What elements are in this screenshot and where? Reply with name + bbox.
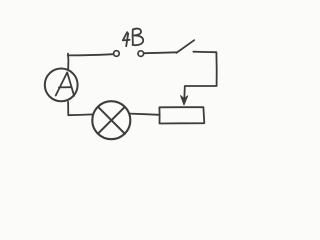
- label 4B (source voltage): [123, 29, 143, 47]
- terminal (battery clamp, left): [114, 51, 120, 57]
- lamp HL (circle with cross): [92, 101, 130, 139]
- wire (ammeter top to left battery terminal): [68, 54, 113, 69]
- wire (ammeter bottom to lamp): [68, 102, 93, 115]
- terminal (battery clamp, right): [138, 51, 144, 57]
- rheostat R (body): [159, 107, 204, 123]
- wire (switch to rheostat slider, with two bends): [185, 52, 217, 86]
- wire (lamp to rheostat): [129, 114, 159, 115]
- ammeter letter A: [56, 72, 74, 95]
- switch S (open lever): [176, 40, 194, 53]
- ammeter PA (circle): [45, 69, 78, 102]
- rheostat slider arrow: [183, 86, 186, 99]
- wire (right terminal to switch): [144, 51, 177, 54]
